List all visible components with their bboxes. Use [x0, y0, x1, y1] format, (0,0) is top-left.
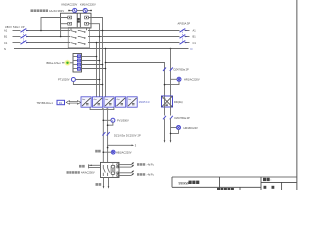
PV1 bottom lead — [108, 122, 113, 125]
output arrow into box — [88, 164, 90, 168]
svg-text:R1: R1 — [59, 101, 63, 105]
frame right border — [296, 0, 298, 190]
svg-text:N: N — [191, 47, 193, 51]
svg-text:PV1/300V: PV1/300V — [117, 119, 129, 123]
voltage transformer PT1 — [71, 78, 75, 82]
polarity marks + - — [102, 107, 104, 110]
KM1 terminal wire to vertical feeder (right L-bend lower) — [89, 24, 100, 37]
wire row A — [13, 30, 21, 32]
svg-text:TMYBK-DA+1: TMYBK-DA+1 — [37, 101, 54, 105]
SPD modules — [78, 55, 81, 70]
title text 图号: — [263, 178, 266, 181]
phase vertical feeder C — [102, 31, 104, 97]
breaker QF4 2P — [102, 132, 109, 136]
rectifier module U2 — [93, 97, 103, 107]
svg-text:KM2/AC220V: KM2/AC220V — [62, 2, 78, 6]
DC feeder negative — [107, 110, 109, 163]
svg-text:: 4d Fc: : 4d Fc — [146, 173, 155, 177]
output transfer switch box — [101, 162, 120, 177]
double arrow connector — [66, 101, 81, 105]
transfer contact enclosure box — [68, 28, 89, 48]
label 直充屏 — [137, 163, 139, 166]
svg-text:DZ1/63a DC250V 2P: DZ1/63a DC250V 2P — [114, 133, 141, 137]
breaker QF2 arrow marks — [185, 30, 187, 44]
changeover contact row B — [71, 37, 86, 39]
mechanical interlock linkage — [75, 13, 86, 28]
transfer contact a — [103, 165, 105, 176]
breaker QF1 3P (left incoming) — [21, 29, 27, 45]
battery output wires — [103, 178, 105, 187]
svg-text:PT1/220V: PT1/220V — [58, 78, 70, 82]
PT1 wires — [75, 79, 99, 81]
phase tap wire to right column — [106, 63, 165, 97]
terminal squares — [117, 164, 119, 177]
indicator lamp HL1 — [177, 77, 181, 81]
changeover contact row C — [71, 43, 86, 45]
svg-text:4A/AC380V: 4A/AC380V — [49, 9, 64, 13]
svg-text:HR1/AC220V: HR1/AC220V — [184, 78, 200, 82]
HB1 stub — [103, 151, 111, 153]
transfer coil — [111, 165, 115, 174]
dual power transfer switch label 双电源切换4A/AC380V — [31, 9, 34, 12]
coil terminal wires — [69, 10, 91, 12]
SPD tap wires to feeders — [82, 57, 106, 69]
breaker QF3 2P — [163, 68, 173, 72]
label 直充 — [95, 150, 98, 153]
KM2 terminal wire to row A (left L-bend) — [41, 18, 68, 31]
svg-text:M10/5 F-F: M10/5 F-F — [139, 101, 151, 104]
svg-text:A1: A1 — [193, 29, 197, 33]
module output drops — [90, 107, 114, 109]
KM2 terminal wire to row B (left L-bend) — [61, 24, 68, 37]
svg-text:HR3/DC24V: HR3/DC24V — [184, 126, 199, 130]
KM1 terminal wire to vertical feeder (right L-bend upper) — [89, 18, 103, 31]
title block — [172, 177, 297, 190]
svg-text:AP/30A 3P: AP/30A 3P — [178, 22, 191, 26]
wire row B — [13, 36, 21, 38]
svg-text::: : — [271, 178, 272, 182]
title text 设计审图 — [217, 188, 220, 191]
battery connector arrows — [164, 140, 166, 142]
feeder arrows to charge panels — [119, 161, 135, 175]
contactor KM2 coil — [73, 8, 77, 12]
label 合充屏 — [137, 173, 139, 176]
indicator lamp HL3 — [177, 126, 181, 130]
label 双电源开关4A/AC250V — [67, 171, 69, 174]
PV1 stub — [103, 119, 111, 121]
svg-text:B1: B1 — [193, 35, 197, 39]
breaker QF5 2P — [163, 116, 173, 120]
surge protector status indicator (green) — [64, 60, 70, 66]
svg-text:C1: C1 — [193, 41, 197, 45]
svg-text:N: N — [4, 47, 6, 51]
DD verticals through box — [164, 96, 166, 116]
svg-text:B1: B1 — [4, 35, 8, 39]
svg-text:KM1/AC220V: KM1/AC220V — [80, 2, 96, 6]
rectifier module U5 — [127, 97, 137, 107]
phase vertical feeder B — [99, 37, 101, 97]
neutral vertical feeder — [105, 49, 107, 97]
surge protector SPD box — [73, 54, 82, 73]
svg-text:DZ47/50a 2P: DZ47/50a 2P — [175, 116, 191, 120]
rectifier module U4 — [116, 97, 126, 107]
neutral tap to right column (to DD) — [170, 48, 172, 50]
svg-text:4A/AC250V: 4A/AC250V — [81, 171, 95, 175]
changeover contact row A — [71, 31, 86, 33]
transfer contact b — [108, 165, 110, 176]
svg-text:: 4d Fc: : 4d Fc — [146, 163, 155, 167]
label 合充 — [96, 183, 99, 186]
lamp HL1 wires — [171, 78, 178, 80]
resistor box R1 — [57, 100, 65, 104]
svg-text:BD1a-C/3+n: BD1a-C/3+n — [47, 61, 62, 65]
svg-text:990kW: 990kW — [179, 181, 190, 185]
breaker QF1 arrow marks — [26, 30, 28, 44]
wire row N — [14, 48, 189, 50]
rectifier module U3 — [104, 97, 114, 107]
inverter box DD — [162, 96, 173, 107]
contactor KM1 coil — [83, 8, 87, 12]
voltmeter PV1 — [111, 118, 115, 122]
svg-text:DZ47/50a 2P: DZ47/50a 2P — [174, 68, 190, 72]
svg-text:380V 50Hz 3P: 380V 50Hz 3P — [5, 25, 25, 29]
svg-text:A1: A1 — [4, 29, 8, 33]
indicator lamp HB1 — [111, 150, 115, 154]
rectifier module U1 — [81, 97, 91, 107]
signal arrow 3 — [108, 145, 132, 147]
DC feeder positive — [102, 110, 104, 163]
title text 年 月 — [264, 186, 267, 189]
transfer box bottom drops — [70, 28, 72, 31]
svg-text:HB1/AC220V: HB1/AC220V — [116, 150, 132, 154]
svg-text:C1: C1 — [4, 41, 8, 45]
transfer switch outer box — [61, 13, 92, 28]
phase vertical feeder A — [96, 43, 98, 97]
output label 输出 — [79, 165, 82, 168]
svg-text:DD(4A): DD(4A) — [174, 100, 183, 104]
KM1 contact terminal squares — [85, 16, 89, 19]
wire row C — [13, 42, 21, 44]
HL3 wires — [171, 127, 177, 129]
KM2 contact terminal squares — [68, 16, 72, 19]
